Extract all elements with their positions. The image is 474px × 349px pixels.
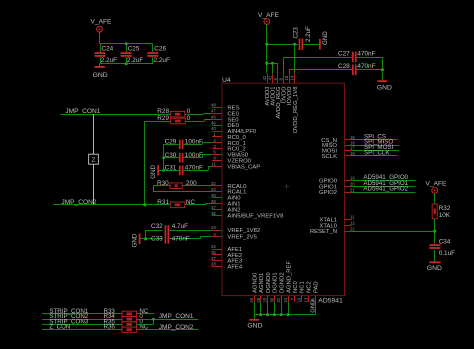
svg-text:100nF: 100nF	[185, 152, 203, 159]
pin MISO (18)	[322, 140, 355, 149]
svg-text:C25: C25	[128, 46, 140, 53]
svg-text:33: 33	[211, 187, 216, 192]
svg-text:39: 39	[211, 193, 216, 198]
ground GND (C23)	[319, 31, 329, 50]
svg-text:C30: C30	[165, 152, 177, 159]
node junction AVDD1	[271, 62, 274, 65]
node junction bus	[265, 62, 268, 65]
pin XTAL1 (11)	[319, 215, 355, 224]
svg-text:45: 45	[211, 115, 216, 120]
svg-text:GND: GND	[322, 31, 329, 45]
pin DVDD_REG_1V8 (14)	[290, 73, 299, 133]
resistor R29	[157, 115, 190, 124]
value AD5941	[318, 298, 343, 305]
wire gnd riser	[260, 302, 262, 315]
pin VBIAS_CAP (11)	[211, 161, 260, 170]
ground GND (U4)	[247, 315, 262, 330]
pin DGND1 (30)	[269, 272, 278, 302]
svg-text:27: 27	[211, 256, 216, 261]
wire SPI_MISO	[352, 145, 400, 147]
svg-text:C24: C24	[102, 46, 114, 53]
svg-text:47: 47	[211, 109, 216, 114]
capacitor C25	[121, 46, 144, 65]
svg-text:AGND0: AGND0	[252, 272, 258, 293]
pin AFE4 (28)	[211, 262, 243, 271]
wire AVDD_REG riser	[277, 63, 279, 73]
reference designator U4	[222, 77, 231, 84]
net label STRIP_CON2	[49, 313, 88, 320]
svg-text:30: 30	[269, 297, 274, 302]
wire to GND (C27/C28)	[382, 70, 384, 80]
svg-text:C34: C34	[439, 238, 451, 245]
wire C26 top stub	[152, 44, 154, 52]
pin AIN0 (39)	[211, 193, 241, 202]
node junction gnd bus	[287, 313, 290, 316]
wire C26 bottom stub	[152, 57, 154, 64]
svg-text:2.2uF: 2.2uF	[127, 57, 143, 64]
wire AD5941_GPIO0	[352, 180, 416, 182]
svg-text:VREF_2V5: VREF_2V5	[227, 235, 257, 241]
ground GND (C27/C28)	[377, 80, 392, 91]
wire gnd riser	[267, 302, 269, 315]
svg-text:DGND0: DGND0	[266, 272, 272, 293]
svg-text:11: 11	[350, 215, 355, 220]
svg-text:V_AFE: V_AFE	[426, 180, 447, 187]
pin XTAL0 (12)	[319, 220, 355, 229]
pin GPIO0 (19)	[319, 176, 355, 185]
svg-text:AGND1: AGND1	[259, 273, 265, 293]
svg-text:2.2uF: 2.2uF	[305, 26, 312, 42]
wire PAD riser	[315, 302, 317, 315]
pin RCAL0 (32)	[211, 181, 247, 190]
pin SE0 (45)	[211, 115, 239, 124]
svg-text:32: 32	[211, 181, 216, 186]
capacitor C31	[164, 165, 208, 176]
wire C28 right	[357, 69, 383, 71]
svg-text:2.2uF: 2.2uF	[101, 57, 117, 64]
pin CS_N (15)	[321, 135, 355, 144]
svg-text:AD5941_GPIO2: AD5941_GPIO2	[363, 186, 408, 193]
svg-text:GND: GND	[247, 322, 262, 329]
wire R31 to AIN1	[185, 204, 212, 205]
svg-text:40: 40	[211, 126, 216, 131]
svg-text:SCLK: SCLK	[322, 154, 337, 160]
svg-text:24: 24	[283, 297, 288, 302]
svg-text:JMP_CON2: JMP_CON2	[159, 324, 194, 331]
net label SPI_MISO	[364, 139, 393, 146]
capacitor C28	[338, 63, 376, 75]
pin AVDD_REG (9)	[273, 73, 282, 118]
svg-text:SPI_CLK: SPI_CLK	[364, 149, 390, 156]
ground GND (decoupling bank)	[93, 64, 108, 79]
node junction RESET_N	[433, 230, 436, 233]
svg-text:PAD: PAD	[314, 281, 320, 293]
capacitor C33	[146, 234, 201, 244]
wire R35 out	[137, 319, 154, 324]
capacitor C30	[164, 152, 203, 163]
svg-text:18: 18	[350, 140, 355, 145]
wire STRIP_CON3	[42, 324, 122, 326]
pin GPIO2 (21)	[319, 187, 355, 196]
net label AD5941_GPIO1	[363, 180, 408, 187]
pin AIN5/BUF_VREF1V8 (36)	[211, 211, 284, 220]
wire AD5941_GPIO1	[352, 186, 416, 188]
pin RC0_2 (3)	[212, 144, 246, 153]
power symbol V_AFE (reset pullup)	[426, 180, 447, 193]
wire gnd riser	[274, 302, 276, 315]
pin AVDD3 (42)	[262, 73, 271, 106]
wire C23 to GND	[303, 44, 319, 46]
svg-text:R31: R31	[157, 199, 169, 206]
capacitor C24	[95, 46, 118, 65]
svg-text:U4: U4	[222, 77, 231, 84]
svg-text:C33: C33	[151, 236, 163, 243]
pin MOSI (17)	[322, 146, 355, 155]
op-amp U4 AD5941 body	[222, 83, 345, 295]
ground GND (RC caps)	[150, 165, 164, 179]
pin AFE3 (27)	[211, 256, 243, 265]
wire JMP_CON2 riser	[144, 121, 146, 205]
svg-text:VREF_1V82: VREF_1V82	[227, 228, 260, 234]
pin RCAL1 (33)	[211, 187, 246, 196]
resistor R30	[157, 180, 197, 189]
svg-text:22: 22	[350, 226, 355, 231]
svg-text:26: 26	[256, 297, 261, 302]
pin VBIAS0 (5)	[212, 150, 249, 159]
net label AD5941_GPIO0	[363, 174, 408, 181]
svg-text:10: 10	[297, 297, 302, 302]
wire C34 to GND	[434, 250, 436, 262]
svg-text:R29: R29	[157, 115, 169, 122]
resistor R33	[104, 308, 149, 317]
pin DGND2 (31)	[276, 272, 285, 302]
wire SPI_CLK	[352, 155, 397, 157]
jumper Z1 bottom lead	[93, 164, 95, 205]
jumper Z1	[89, 154, 99, 164]
net label AD5941_GPIO2	[363, 186, 408, 193]
wire IOVDD riser to C28	[289, 70, 352, 74]
wire DVDD riser to C27	[283, 57, 352, 73]
wire JMP_CON1	[61, 114, 171, 116]
svg-text:4.7uF: 4.7uF	[172, 223, 188, 230]
svg-text:GND: GND	[427, 265, 442, 272]
node junction C25 bottom	[125, 62, 128, 65]
svg-text:46: 46	[211, 120, 216, 125]
wire JMP_CON2	[54, 204, 171, 206]
svg-text:C31: C31	[165, 165, 177, 172]
wire C29 to RC0_1	[202, 143, 212, 145]
wire ground bus	[254, 314, 315, 316]
wire SPI_MOSI	[352, 150, 399, 152]
pin CE0 (47)	[211, 109, 240, 118]
node junction gnd bus	[280, 313, 283, 316]
svg-text:V_AFE: V_AFE	[91, 19, 112, 26]
pin AGND1 (26)	[256, 273, 265, 303]
resistor R32	[432, 204, 451, 219]
net label SPI_CLK	[364, 149, 390, 156]
wire R28 to CE0	[185, 113, 212, 114]
pin RC0_0 (1)	[212, 132, 246, 141]
svg-text:0.1uF: 0.1uF	[439, 250, 455, 257]
pin AVDD1 (41)	[267, 73, 276, 106]
node junction C25 top	[125, 42, 128, 45]
wire DVDD_REG_1V8 riser	[294, 44, 296, 73]
net label SPI_CS	[364, 133, 386, 140]
pin VREF_2V5 (4)	[212, 232, 257, 241]
svg-text:NC0: NC0	[293, 280, 299, 293]
pin AFE2 (35)	[211, 250, 242, 259]
svg-text:13: 13	[303, 297, 308, 302]
wire R34 to JMP_CON1	[137, 319, 199, 321]
svg-text:36: 36	[211, 211, 216, 216]
svg-text:GND: GND	[93, 72, 108, 79]
svg-text:DGND1: DGND1	[273, 272, 279, 293]
pin AGND0 (29)	[249, 272, 258, 303]
net label JMP_CON2	[61, 199, 97, 206]
svg-text:RESET_N: RESET_N	[310, 229, 337, 235]
wire C33 to VREF_2V5	[200, 237, 212, 239]
wire AVDD1 riser	[272, 63, 274, 73]
svg-text:C26: C26	[154, 46, 166, 53]
svg-text:20: 20	[350, 181, 355, 186]
svg-text:470nF: 470nF	[357, 50, 375, 57]
node junction rail	[265, 43, 268, 46]
pin IOVDD (10)	[284, 73, 293, 105]
wire V_AFE down to AVDD3	[266, 25, 268, 74]
wire C27 right	[357, 57, 383, 70]
svg-text:0: 0	[187, 115, 191, 122]
pin RC0_1 (2)	[212, 138, 246, 147]
node junction C28/GND	[381, 68, 384, 71]
pin NC1 (10)	[297, 281, 306, 302]
svg-text:GND: GND	[377, 84, 392, 91]
wire RC cap bus	[163, 144, 165, 170]
ground GND (C34)	[427, 261, 442, 271]
svg-text:2.2uF: 2.2uF	[154, 57, 170, 64]
resistor R34	[104, 313, 144, 322]
pin PAD (49)	[310, 281, 319, 302]
svg-text:12: 12	[350, 220, 355, 225]
svg-text:11: 11	[211, 161, 216, 166]
svg-text:470nF: 470nF	[185, 165, 203, 172]
svg-text:C28: C28	[338, 63, 350, 70]
svg-text:V_AFE: V_AFE	[258, 12, 279, 19]
svg-text:AFE4: AFE4	[227, 265, 242, 271]
net label Z_CON	[49, 324, 70, 331]
pin AIN2 (37)	[211, 205, 240, 214]
resistor R28	[157, 108, 190, 117]
wire supply rail to C23	[267, 44, 298, 46]
svg-text:28: 28	[211, 262, 216, 267]
wire C24 top stub	[100, 44, 102, 52]
svg-text:C32: C32	[151, 223, 163, 230]
wire C25 top stub	[126, 44, 128, 52]
pin AIN1 (38)	[211, 199, 240, 208]
capacitor C34	[429, 238, 455, 257]
svg-text:DGND2: DGND2	[279, 272, 285, 293]
svg-text:100nF: 100nF	[185, 139, 203, 146]
svg-text:AD5941: AD5941	[318, 298, 343, 305]
pin SCLK (16)	[322, 151, 356, 160]
wire R30 to RCAL0	[182, 185, 212, 187]
node junction C30 left	[162, 156, 165, 159]
pin RES (48)	[211, 103, 240, 112]
wire R29 to SE0	[185, 119, 212, 121]
svg-text:21: 21	[350, 187, 355, 192]
pin AIN4/LPF0 (40)	[211, 126, 257, 135]
pin GPIO1 (20)	[319, 181, 355, 190]
wire AD5941_GPIO2	[352, 192, 416, 194]
svg-text:GND: GND	[150, 165, 157, 179]
jumper Z1 top lead	[93, 114, 95, 154]
wire SPI_CS	[352, 139, 398, 141]
wire VREF cap bus	[145, 230, 147, 239]
power symbol V_AFE (U4 supplies)	[258, 12, 279, 25]
node junction gnd bus	[273, 313, 276, 316]
pin NC2 (13)	[303, 281, 312, 302]
wire bottom rail	[100, 63, 153, 65]
svg-text:JMP_CON1: JMP_CON1	[159, 313, 194, 320]
svg-text:Z: Z	[92, 157, 96, 164]
wire RESET_N	[352, 231, 435, 233]
capacitor C29	[164, 139, 203, 150]
pin AFE1 (34)	[211, 244, 242, 253]
capacitor C23	[293, 26, 312, 50]
pin DGND0 (25)	[263, 272, 272, 303]
pin VZERO0 (9)	[212, 156, 252, 165]
svg-text:AGND_REF: AGND_REF	[286, 261, 292, 293]
svg-text:NC2: NC2	[307, 281, 313, 293]
svg-text:14: 14	[290, 75, 295, 80]
pin NC0 (7)	[290, 280, 299, 302]
net label JMP_CON1	[65, 108, 101, 115]
svg-text:DVDD_REG_1V8: DVDD_REG_1V8	[293, 86, 299, 133]
net label JMP_CON2 (bottom)	[159, 324, 194, 331]
node junction gnd bus	[266, 313, 269, 316]
svg-text:41: 41	[267, 75, 272, 80]
wire C30 to VBIAS0	[202, 155, 212, 158]
svg-text:VBIAS_CAP: VBIAS_CAP	[227, 164, 260, 170]
svg-text:48: 48	[211, 103, 216, 108]
wire R36 to JMP_CON2	[137, 329, 199, 331]
svg-text:10K: 10K	[439, 212, 451, 219]
svg-text:42: 42	[262, 75, 267, 80]
pin AGND_REF (24)	[283, 261, 292, 303]
net label STRIP_CON1	[49, 308, 88, 315]
net label SPI_MOSI	[364, 144, 394, 151]
svg-text:C29: C29	[165, 139, 177, 146]
power symbol V_AFE (decoupling bank)	[91, 19, 112, 33]
svg-text:35: 35	[211, 250, 216, 255]
resistor R36	[104, 324, 149, 333]
net label GND (PAD)	[311, 300, 317, 313]
svg-text:25: 25	[263, 297, 268, 302]
svg-text:10: 10	[284, 75, 289, 80]
wire gnd riser	[288, 302, 290, 315]
svg-text:C23: C23	[293, 27, 300, 39]
node junction gnd bus	[259, 313, 262, 316]
wire R30 to RCAL1	[153, 186, 212, 192]
net label STRIP_CON3	[49, 318, 88, 325]
svg-text:C27: C27	[338, 50, 350, 57]
svg-text:37: 37	[211, 205, 216, 210]
svg-text:43: 43	[211, 225, 216, 230]
pin DE0 (46)	[211, 120, 240, 129]
svg-text:38: 38	[211, 199, 216, 204]
wire V_AFE to rail	[99, 32, 101, 44]
net label JMP_CON1 (bottom)	[159, 313, 194, 320]
svg-text:34: 34	[211, 244, 216, 249]
svg-text:29: 29	[249, 297, 254, 302]
wire STRIP_CON1	[42, 313, 122, 315]
pin VREF_1V82 (43)	[211, 225, 260, 234]
pin RESET_N (22)	[310, 226, 356, 235]
wire R29 left	[145, 121, 171, 123]
part origin mark U4	[284, 184, 289, 189]
wire C24 bottom stub	[100, 57, 102, 64]
ground GND (VREF caps)	[132, 233, 146, 247]
wire R32 to node	[434, 219, 436, 244]
wire R33 out	[137, 313, 154, 315]
resistor R35	[104, 318, 144, 327]
capacitor C32	[146, 223, 213, 235]
node junction DVDD_REG riser	[293, 43, 296, 46]
svg-text:31: 31	[276, 297, 281, 302]
svg-text:GPIO2: GPIO2	[319, 190, 337, 196]
wire top rail	[100, 43, 153, 45]
svg-text:AIN5/BUF_VREF1V8: AIN5/BUF_VREF1V8	[227, 214, 284, 220]
node junction C33 left	[144, 237, 147, 240]
wire gnd riser	[254, 302, 256, 315]
capacitor C26	[147, 46, 170, 65]
svg-text:19: 19	[350, 176, 355, 181]
wire Z_CON	[42, 329, 122, 331]
wire C31 to VBIAS_CAP	[208, 166, 212, 170]
node junction riser/JMP_CON2	[143, 203, 146, 206]
wire STRIP_CON2	[42, 319, 122, 321]
node junction C31 left	[162, 169, 165, 172]
svg-text:470nF: 470nF	[172, 236, 190, 243]
wire C25 bottom stub	[126, 57, 128, 64]
resistor R31	[157, 199, 195, 208]
capacitor C27	[338, 50, 376, 62]
pin DVDD (8)	[278, 73, 287, 103]
node junction R35/JMP_CON1	[152, 318, 155, 321]
wire V_AFE to R32	[434, 193, 436, 204]
svg-text:NC1: NC1	[300, 281, 306, 293]
svg-text:GND: GND	[132, 233, 139, 247]
wire gnd riser	[281, 302, 283, 315]
svg-text:R36: R36	[104, 324, 116, 331]
svg-text:GND: GND	[311, 300, 317, 313]
svg-text:17: 17	[350, 146, 355, 151]
wire AVDD bus	[267, 63, 278, 65]
